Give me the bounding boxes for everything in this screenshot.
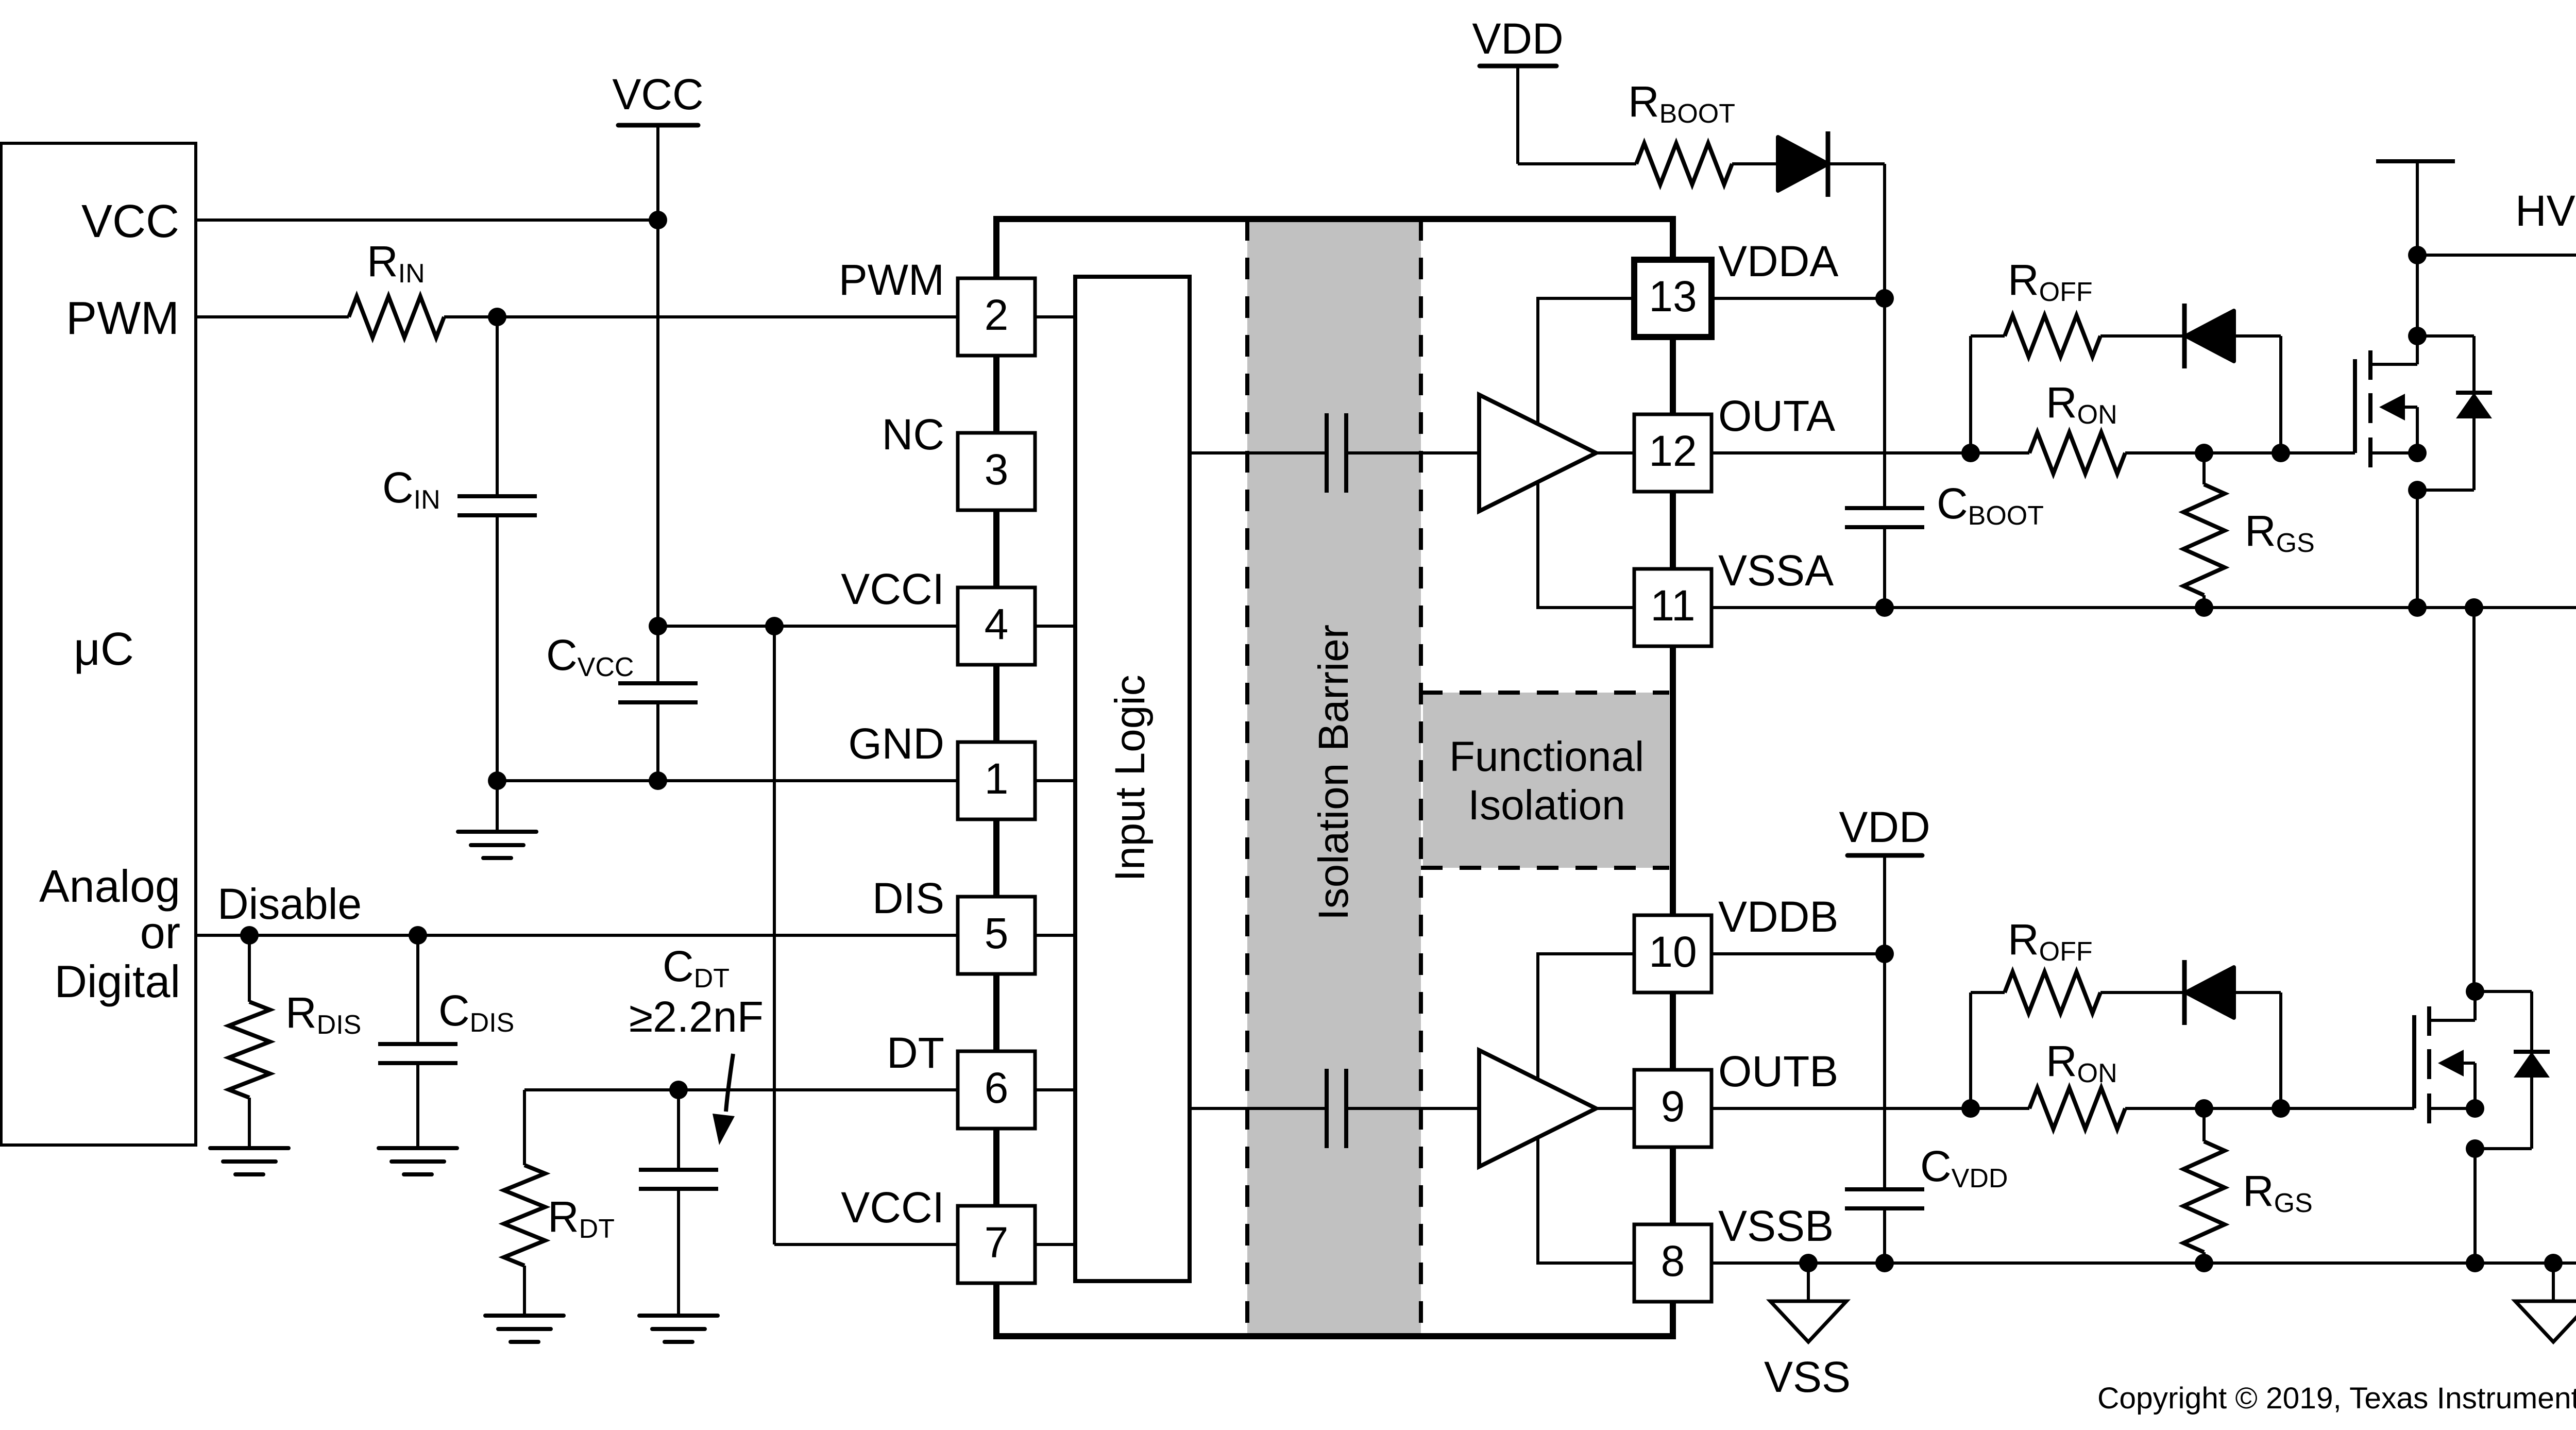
wire ROFF B to diode — [2100, 991, 2186, 994]
wire ROFF B branch up — [1969, 992, 1972, 1108]
wire VDD to RBOOT — [1516, 66, 1519, 164]
junction gate B/DOFF — [2272, 1099, 2290, 1118]
junction DT/CDT — [669, 1081, 688, 1099]
microcontroller block — [1, 143, 196, 1145]
pin 8 box — [1634, 1224, 1711, 1302]
wire DT to pin 6 — [524, 1088, 959, 1091]
wire VSSA/SW rail — [1711, 606, 2576, 609]
input logic block — [1075, 277, 1190, 1281]
resistor RGS B — [2202, 1108, 2206, 1141]
junction VCC/rail — [649, 211, 667, 229]
transistor QA body arrow — [2379, 394, 2405, 420]
svg-text:VCCI: VCCI — [841, 565, 944, 613]
pin 9 box — [1634, 1070, 1711, 1147]
wire VCCI to pin 4 — [658, 625, 959, 628]
transistor QB channel — [2427, 1006, 2431, 1036]
svg-text:4: 4 — [985, 600, 1009, 648]
junction QA source on SW rail — [2408, 598, 2427, 617]
svg-text:PWM: PWM — [839, 256, 944, 304]
svg-text:CDT: CDT — [663, 942, 730, 994]
svg-text:VDD: VDD — [1839, 803, 1930, 851]
resistor RON B — [2029, 1088, 2125, 1129]
svg-text:5: 5 — [985, 909, 1009, 957]
wire DOFF B to gate — [2234, 991, 2281, 994]
svg-text:6: 6 — [985, 1064, 1009, 1112]
gate driver IC outline — [996, 219, 1673, 1336]
wire HV rail — [2417, 254, 2576, 257]
wire driver A to pin 12 — [1596, 451, 1634, 455]
svg-text:CVCC: CVCC — [546, 631, 634, 682]
svg-text:VSSB: VSSB — [1718, 1202, 1834, 1250]
wire Disable — [196, 934, 959, 937]
wire ROFF A branch up — [1969, 336, 1972, 453]
driver buffer B — [1479, 1050, 1596, 1167]
wire QB drain down — [2472, 608, 2476, 991]
wire VDDB pin 10 — [1711, 952, 1885, 955]
pin 1 box — [958, 742, 1035, 819]
isolation barrier region — [1247, 222, 1421, 1333]
diode DOFF B — [2182, 960, 2187, 1025]
wire pin 7 to input logic — [1035, 1243, 1075, 1246]
junction VDDA/CBOOT — [1875, 289, 1894, 308]
capacitor CVCC — [656, 626, 659, 683]
ground (CDT) — [639, 1314, 718, 1318]
junction QB drain/diode — [2466, 982, 2484, 1001]
svg-text:CBOOT: CBOOT — [1937, 479, 2044, 531]
junction VSSB/QB source — [2466, 1254, 2484, 1272]
resistor RIN — [349, 296, 444, 338]
transistor QB gate bar — [2412, 1015, 2416, 1108]
junction RGS A/VSSA — [2195, 598, 2213, 617]
svg-text:RIN: RIN — [367, 237, 425, 289]
wire driver B supply loop — [1538, 954, 1634, 1263]
svg-text:9: 9 — [1661, 1082, 1685, 1131]
junction RGS B/VSSB — [2195, 1254, 2213, 1272]
svg-text:or: or — [140, 907, 180, 958]
svg-text:≥2.2nF: ≥2.2nF — [629, 992, 764, 1041]
wire VDDA pin 13 — [1711, 297, 1885, 300]
svg-text:ROFF: ROFF — [2008, 915, 2093, 967]
svg-text:DIS: DIS — [872, 874, 944, 922]
junction CIN/GND — [488, 771, 506, 790]
ground arrow VSS — [1799, 1254, 1818, 1272]
junction gate B/RGS — [2195, 1099, 2213, 1118]
wire pin 6 to input logic — [1035, 1088, 1075, 1091]
svg-text:RDIS: RDIS — [285, 988, 361, 1040]
transistor QB body arrow — [2438, 1050, 2464, 1076]
pin 7 box — [958, 1206, 1035, 1283]
capacitor CIN — [496, 317, 499, 496]
wire VSSB rail — [1711, 1261, 2576, 1265]
junction CBOOT/VSSA — [1875, 598, 1894, 617]
junction QA drain/diode — [2408, 327, 2427, 345]
pin 10 box — [1634, 915, 1711, 992]
junction QA diode return — [2408, 481, 2427, 499]
svg-text:Digital: Digital — [54, 956, 180, 1007]
svg-text:8: 8 — [1661, 1237, 1685, 1285]
wire PWM from uC — [196, 315, 349, 318]
svg-text:ROFF: ROFF — [2008, 256, 2093, 307]
wire pin 4 to input logic — [1035, 625, 1075, 628]
wire pin 1 to input logic — [1035, 779, 1075, 782]
junction HV/QA drain — [2408, 246, 2427, 264]
capacitor CBOOT — [1883, 298, 1886, 508]
svg-text:μC: μC — [74, 624, 134, 675]
svg-text:12: 12 — [1649, 427, 1697, 475]
svg-text:CIN: CIN — [382, 463, 440, 515]
svg-text:VCCI: VCCI — [841, 1183, 944, 1232]
svg-text:VCC: VCC — [81, 196, 179, 247]
junction CVCC/GND — [649, 771, 667, 790]
diode DOFF A — [2182, 304, 2187, 368]
capacitor CVDD — [1883, 954, 1886, 1189]
body diode QA — [2417, 334, 2474, 338]
wire RBOOT to DBOOT — [1732, 162, 1778, 165]
capacitor CDT — [677, 1090, 680, 1170]
wire OUTB from pin 9 — [1711, 1107, 2029, 1110]
svg-text:PWM: PWM — [66, 293, 179, 344]
svg-text:1: 1 — [985, 754, 1009, 803]
supply bar (HV) — [2376, 159, 2455, 163]
svg-text:OUTA: OUTA — [1718, 392, 1835, 440]
svg-text:13: 13 — [1649, 272, 1697, 321]
wire channel A cap to driver — [1346, 451, 1479, 455]
wire driver A supply loop — [1538, 298, 1634, 608]
svg-text:CVDD: CVDD — [1920, 1142, 2008, 1193]
wire QB source to VSSB — [2473, 1149, 2477, 1263]
wire channel B cap to driver — [1346, 1107, 1479, 1110]
junction QB diode return — [2466, 1139, 2484, 1158]
svg-text:OUTB: OUTB — [1718, 1047, 1838, 1096]
svg-text:VSS: VSS — [1764, 1353, 1851, 1401]
coupling capacitor channel B — [1325, 1069, 1329, 1148]
wire GND to pin 1 — [497, 779, 959, 782]
resistor RBOOT — [1636, 143, 1732, 184]
resistor RON A — [2029, 432, 2125, 474]
arrow CDT pointer — [726, 1054, 733, 1112]
wire RON A to gate — [2125, 451, 2355, 455]
svg-text:RDT: RDT — [548, 1192, 615, 1244]
pin 2 box — [958, 278, 1035, 356]
svg-text:VDD: VDD — [1472, 14, 1563, 63]
wire VCC rail — [656, 126, 659, 626]
junction OUTA/ROFF A — [1961, 444, 1980, 462]
svg-text:RGS: RGS — [2243, 1167, 2313, 1218]
wire logic to channel B cap — [1190, 1107, 1327, 1110]
svg-text:VCC: VCC — [612, 70, 703, 119]
svg-text:RGS: RGS — [2245, 507, 2315, 558]
wire DBOOT to VDDA node — [1828, 162, 1885, 165]
svg-text:3: 3 — [985, 445, 1009, 494]
junction gate A/DOFF — [2272, 444, 2290, 462]
pin 6 box — [958, 1051, 1035, 1129]
junction Disable/CDIS — [409, 926, 427, 945]
svg-text:Input Logic: Input Logic — [1107, 675, 1154, 881]
svg-text:Disable: Disable — [217, 880, 362, 928]
functional isolation region — [1423, 693, 1669, 868]
svg-text:GND: GND — [848, 719, 944, 768]
resistor RDIS — [248, 935, 251, 1002]
pin 11 box — [1634, 569, 1711, 646]
svg-text:DT: DT — [887, 1029, 944, 1077]
svg-text:10: 10 — [1649, 928, 1697, 976]
junction SW/QB drain — [2465, 598, 2483, 617]
wire logic to channel A cap — [1190, 451, 1327, 455]
junction CVDD/VSSB — [1875, 1254, 1894, 1272]
svg-text:VSSA: VSSA — [1718, 546, 1834, 595]
ground (input side) — [496, 781, 499, 832]
junction OUTB/ROFF B — [1961, 1099, 1980, 1118]
transistor QA gate bar — [2353, 359, 2357, 453]
wire VCC to uC — [196, 218, 658, 222]
svg-text:HV DC-Link: HV DC-Link — [2515, 187, 2576, 235]
svg-text:11: 11 — [1650, 581, 1695, 630]
diode DBOOT — [1778, 137, 1828, 191]
isolation barrier dashed lines — [1245, 219, 1249, 1336]
wire pin 2 to input logic — [1035, 315, 1075, 318]
ground (RDT) — [485, 1314, 564, 1318]
wire VDD B down — [1883, 856, 1886, 954]
junction VSSB/ground arrow — [2544, 1254, 2563, 1272]
junction gate A/RGS — [2195, 444, 2213, 462]
capacitor CDIS — [416, 935, 419, 1044]
junction Disable/RDIS — [240, 926, 259, 945]
resistor ROFF A — [2005, 315, 2100, 357]
resistor ROFF B — [2005, 972, 2100, 1013]
transistor QB drain stub — [2429, 1019, 2475, 1022]
wire OUTA from pin 12 — [1711, 451, 2029, 455]
svg-text:2: 2 — [985, 291, 1009, 339]
wire RON B to gate — [2125, 1107, 2414, 1110]
transistor QB source stub — [2429, 1107, 2475, 1110]
ground (CDIS) — [379, 1146, 457, 1150]
pin 4 box — [958, 587, 1035, 665]
svg-text:Copyright © 2019, Texas Instru: Copyright © 2019, Texas Instruments Inco… — [2097, 1382, 2576, 1415]
pin 3 box — [958, 433, 1035, 510]
transistor QA drain stub — [2370, 363, 2417, 366]
pin 13 box — [1634, 260, 1711, 337]
transistor QA source stub — [2370, 451, 2417, 455]
wire RIN to pin 2 — [444, 315, 959, 318]
svg-text:CDIS: CDIS — [438, 986, 514, 1038]
svg-text:7: 7 — [985, 1218, 1009, 1267]
resistor RDT — [523, 1090, 526, 1165]
svg-text:RON: RON — [2046, 378, 2117, 430]
svg-text:RBOOT: RBOOT — [1628, 77, 1735, 129]
svg-text:VDDB: VDDB — [1718, 893, 1838, 941]
svg-text:Functional: Functional — [1449, 733, 1644, 780]
pin 12 box — [1634, 414, 1711, 492]
junction VDDB/CVDD — [1875, 945, 1894, 963]
junction QA source — [2408, 444, 2427, 462]
resistor RGS A — [2202, 453, 2206, 484]
svg-text:Analog: Analog — [39, 861, 180, 912]
junction QB source — [2466, 1099, 2484, 1118]
pin 5 box — [958, 897, 1035, 974]
junction PWM/CIN — [488, 308, 506, 326]
ground arrow (right) — [2552, 1263, 2555, 1301]
svg-text:NC: NC — [882, 410, 944, 459]
wire VCCI down to pin 7 — [773, 626, 776, 1244]
wire DOFF A to gate — [2234, 334, 2281, 338]
svg-text:RON: RON — [2046, 1037, 2117, 1088]
wire ROFF A to diode — [2100, 334, 2186, 338]
coupling capacitor channel A — [1325, 413, 1329, 493]
junction VCC rail/VCCI — [649, 617, 667, 635]
svg-text:Isolation Barrier: Isolation Barrier — [1310, 625, 1357, 920]
svg-text:VDDA: VDDA — [1718, 237, 1838, 285]
body diode QB — [2475, 990, 2532, 993]
wire QA source to SW — [2416, 490, 2419, 608]
junction VCCI branch — [765, 617, 784, 635]
svg-text:Isolation: Isolation — [1468, 782, 1625, 829]
transistor QA channel — [2368, 350, 2372, 380]
wire pin 5 to input logic — [1035, 934, 1075, 937]
driver buffer A — [1479, 395, 1596, 511]
wire driver B to pin 9 — [1596, 1107, 1634, 1110]
ground (RDIS) — [210, 1146, 289, 1150]
